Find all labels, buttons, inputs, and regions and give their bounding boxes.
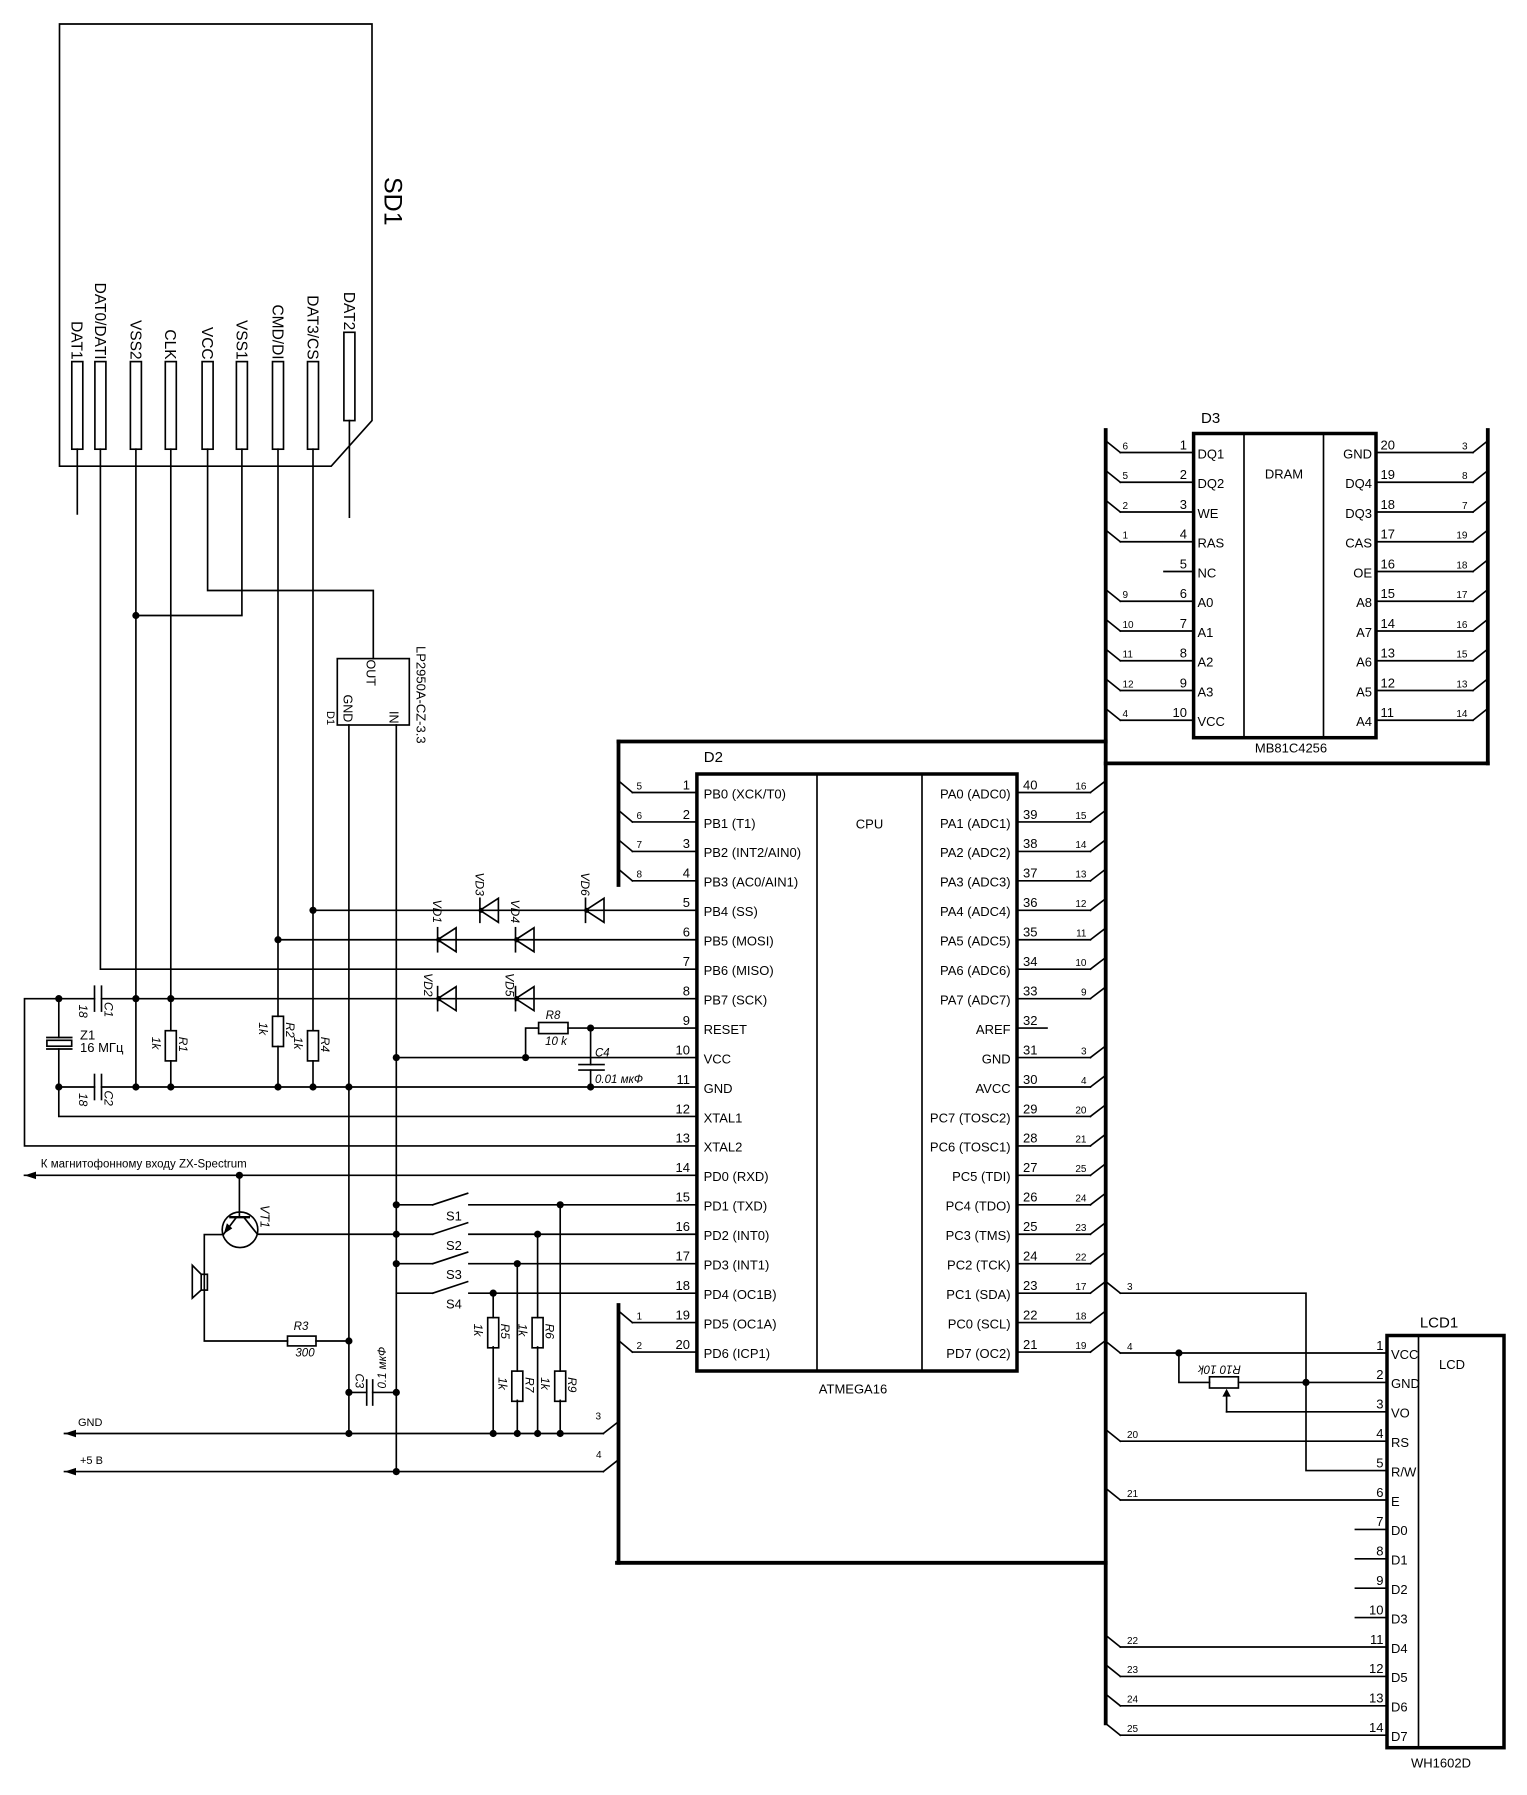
wire D2 pin 33 to bus	[1017, 998, 1090, 1000]
svg-text:R2: R2	[283, 1022, 297, 1038]
wire CMD/DI vertical to R2	[277, 449, 279, 1016]
svg-text:8: 8	[1376, 1544, 1383, 1559]
svg-text:PC4 (TDO): PC4 (TDO)	[946, 1199, 1011, 1214]
svg-text:R10 10k: R10 10k	[1197, 1362, 1241, 1374]
wire LCD D0 stub	[1355, 1528, 1387, 1530]
svg-text:16: 16	[1456, 620, 1468, 631]
svg-text:PA4 (ADC4): PA4 (ADC4)	[940, 904, 1011, 919]
wire PB5 (MOSI) row	[278, 939, 697, 941]
svg-text:18: 18	[1456, 560, 1468, 571]
wire D2 pin 39 to bus	[1017, 821, 1090, 823]
svg-text:17: 17	[1075, 1282, 1087, 1293]
wire D2 pin 34 to bus	[1017, 968, 1090, 970]
wire C4 top lead	[590, 1028, 592, 1065]
junction VT1 base branch	[236, 1172, 243, 1179]
svg-text:VCC: VCC	[198, 327, 215, 360]
svg-text:31: 31	[1023, 1042, 1037, 1057]
svg-text:7: 7	[637, 840, 643, 851]
arrow +5V	[65, 1468, 77, 1476]
bus bottom horizontal	[617, 1561, 1106, 1565]
wire D2 pin 29 to bus	[1017, 1115, 1090, 1117]
svg-text:36: 36	[1023, 895, 1037, 910]
D2 inner divider right	[921, 774, 923, 1371]
svg-text:PB7 (SCK): PB7 (SCK)	[704, 992, 768, 1007]
wire bus to D2 pin 19	[619, 1311, 633, 1323]
wire speaker to R3	[204, 1290, 287, 1341]
svg-text:VD4: VD4	[508, 900, 522, 924]
DRAM D3 box	[1194, 434, 1376, 738]
wire D3 pin 18 to bus	[1376, 511, 1473, 513]
svg-text:PB6 (MISO): PB6 (MISO)	[704, 963, 774, 978]
wire bus to LCD D4 (22)	[1106, 1635, 1121, 1647]
LCD1 inner divider	[1418, 1336, 1420, 1748]
svg-text:GND: GND	[704, 1081, 733, 1096]
resistor R3	[288, 1336, 317, 1346]
SD1 pin DAT1 contact	[72, 362, 83, 450]
wire D2 pin 22 to bus	[1017, 1322, 1090, 1324]
svg-text:10: 10	[1123, 620, 1135, 631]
wire D2 pin 31 to bus	[1017, 1057, 1090, 1059]
svg-text:1: 1	[1123, 531, 1129, 542]
svg-text:PC7 (TOSC2): PC7 (TOSC2)	[930, 1110, 1011, 1125]
svg-text:2: 2	[1180, 467, 1187, 482]
wire PB7 (SCK) row	[102, 998, 697, 1000]
svg-text:PB5 (MOSI): PB5 (MOSI)	[704, 934, 774, 949]
svg-text:11: 11	[677, 1072, 691, 1087]
junction R4 on GND rail	[309, 1083, 316, 1090]
svg-text:2: 2	[683, 807, 690, 822]
svg-text:PC2 (TCK): PC2 (TCK)	[947, 1258, 1011, 1273]
svg-text:37: 37	[1023, 866, 1037, 881]
wire bus to D3 pin 7	[1106, 619, 1121, 631]
wire R8 right lead	[568, 1027, 591, 1029]
svg-text:9: 9	[1123, 590, 1129, 601]
svg-text:D5: D5	[1391, 1670, 1408, 1685]
svg-text:14: 14	[1456, 709, 1468, 720]
svg-text:C2: C2	[102, 1091, 116, 1107]
svg-text:8: 8	[1180, 646, 1187, 661]
svg-text:19: 19	[1075, 1341, 1087, 1352]
wire R1 bottom lead	[170, 1061, 172, 1087]
wire D3 pin 12 to bus	[1376, 690, 1473, 692]
svg-text:PA3 (ADC3): PA3 (ADC3)	[940, 875, 1011, 890]
resistor R9	[555, 1371, 566, 1401]
svg-text:OUT: OUT	[364, 660, 378, 687]
junction C4 on GND rail	[587, 1083, 594, 1090]
svg-text:6: 6	[1123, 441, 1129, 452]
svg-text:DAT3/CS: DAT3/CS	[303, 295, 320, 359]
svg-text:1: 1	[1180, 437, 1187, 452]
svg-text:PB1 (T1): PB1 (T1)	[704, 816, 756, 831]
junction R8 branch on VCC row	[522, 1054, 529, 1061]
svg-text:D3: D3	[1391, 1611, 1408, 1626]
switch S4 right lead to D2	[469, 1292, 697, 1294]
svg-text:PA2 (ADC2): PA2 (ADC2)	[940, 845, 1011, 860]
wire D2 pin 23 to bus	[1017, 1292, 1090, 1294]
svg-text:7: 7	[1462, 501, 1468, 512]
svg-text:16: 16	[1381, 556, 1395, 571]
junction S1 pull-down	[557, 1201, 564, 1208]
junction S2 on +5V vertical	[393, 1231, 400, 1238]
svg-text:IN: IN	[386, 711, 400, 724]
bus left upper segment	[617, 742, 621, 886]
svg-text:19: 19	[676, 1307, 690, 1322]
wire emitter to speaker	[204, 1235, 223, 1275]
wire D2 pin 27 to bus	[1017, 1174, 1090, 1176]
svg-text:5: 5	[683, 895, 690, 910]
wire D3 pin 14 to bus	[1376, 630, 1473, 632]
svg-text:10: 10	[1075, 958, 1087, 969]
resistor R8	[539, 1023, 568, 1034]
svg-text:5: 5	[1180, 556, 1187, 571]
wire VCC row	[396, 1057, 697, 1059]
resistor R7	[512, 1371, 523, 1401]
svg-text:23: 23	[1075, 1223, 1087, 1234]
svg-text:A7: A7	[1356, 625, 1372, 640]
svg-text:D6: D6	[1391, 1700, 1408, 1715]
svg-text:20: 20	[1381, 437, 1395, 452]
junction crystal top	[55, 995, 62, 1002]
svg-text:5: 5	[637, 781, 643, 792]
wire SD VCC to D1 OUT	[208, 449, 374, 658]
svg-text:1: 1	[637, 1311, 643, 1322]
bus D3 bottom horizontal	[1106, 762, 1488, 766]
svg-text:9: 9	[1081, 987, 1087, 998]
wire crystal top lead	[58, 999, 60, 1038]
potentiometer R10	[1210, 1377, 1239, 1388]
D2 inner divider left	[816, 774, 818, 1371]
svg-text:35: 35	[1023, 925, 1037, 940]
diode VD3	[479, 898, 481, 922]
VT1 emitter arrow	[224, 1223, 233, 1234]
junction S3 on +5V vertical	[393, 1260, 400, 1267]
bus main vertical	[1104, 430, 1108, 1723]
svg-text:VT1: VT1	[258, 1205, 272, 1228]
wire VT1 collector to +5V	[257, 1233, 396, 1235]
svg-text:13: 13	[1075, 870, 1087, 881]
junction S2 pull-down	[534, 1231, 541, 1238]
svg-text:12: 12	[1123, 679, 1135, 690]
wire R10 left lead	[1179, 1353, 1210, 1382]
svg-text:DQ4: DQ4	[1345, 476, 1372, 491]
svg-text:12: 12	[1369, 1661, 1383, 1676]
svg-text:DRAM: DRAM	[1265, 467, 1303, 482]
svg-text:15: 15	[1381, 586, 1395, 601]
resistor R4	[308, 1031, 319, 1061]
wire D2 pin 37 to bus	[1017, 880, 1090, 882]
svg-text:RAS: RAS	[1198, 536, 1225, 551]
svg-text:R7: R7	[522, 1377, 536, 1394]
svg-text:A0: A0	[1198, 595, 1214, 610]
svg-text:CLK: CLK	[161, 329, 178, 360]
svg-text:14: 14	[1369, 1720, 1383, 1735]
svg-text:8: 8	[683, 983, 690, 998]
svg-text:6: 6	[637, 811, 643, 822]
junction R/W wire on GND row	[1302, 1379, 1309, 1386]
svg-text:4: 4	[1123, 709, 1129, 720]
svg-text:R8: R8	[546, 1010, 561, 1022]
wire LCD D2 stub	[1355, 1587, 1387, 1589]
svg-text:15: 15	[676, 1190, 690, 1205]
switch S4 arm	[433, 1282, 468, 1294]
svg-text:DQ3: DQ3	[1345, 506, 1372, 521]
arrow to ZX-Spectrum	[25, 1172, 37, 1180]
wire R7 bottom lead	[516, 1400, 518, 1433]
svg-text:2: 2	[1376, 1367, 1383, 1382]
svg-text:0.1 мкФ: 0.1 мкФ	[377, 1347, 389, 1389]
svg-text:22: 22	[1023, 1307, 1037, 1322]
svg-text:5: 5	[1123, 471, 1129, 482]
junction R1 on GND rail	[167, 1083, 174, 1090]
SD1 pin DAT0/DATI contact	[95, 362, 106, 450]
wire DAT3/CS vertical to R4	[312, 449, 314, 1030]
svg-text:3: 3	[683, 836, 690, 851]
svg-text:4: 4	[683, 866, 690, 881]
svg-text:33: 33	[1023, 983, 1037, 998]
svg-text:15: 15	[1456, 650, 1468, 661]
svg-text:C1: C1	[102, 1002, 116, 1017]
svg-text:XTAL2: XTAL2	[704, 1140, 743, 1155]
svg-text:18: 18	[1381, 497, 1395, 512]
svg-text:PD2 (INT0): PD2 (INT0)	[704, 1228, 770, 1243]
svg-text:DAT2: DAT2	[340, 292, 357, 330]
VT1 collector	[244, 1217, 258, 1234]
wire VSS2 vertical	[135, 449, 137, 1087]
svg-text:CMD/DI: CMD/DI	[268, 304, 285, 359]
svg-text:14: 14	[1381, 616, 1395, 631]
svg-text:PD5 (OC1A): PD5 (OC1A)	[704, 1316, 777, 1331]
svg-text:0.01 мкФ: 0.01 мкФ	[595, 1074, 643, 1086]
svg-text:3: 3	[1127, 1282, 1133, 1293]
wire C2 left segment	[59, 1086, 95, 1088]
svg-text:5: 5	[1376, 1455, 1383, 1470]
svg-text:11: 11	[1381, 705, 1395, 720]
junction R8/C4 on RESET row	[587, 1025, 594, 1032]
svg-text:VD3: VD3	[472, 872, 486, 896]
wire D2 pin 30 to bus	[1017, 1086, 1090, 1088]
svg-text:11: 11	[1076, 929, 1087, 940]
switch S3 arm	[433, 1252, 468, 1264]
wire bus to D3 pin 4	[1106, 530, 1121, 542]
junction R2 on GND rail	[274, 1083, 281, 1090]
bus entry +5V (4)	[603, 1460, 618, 1472]
svg-text:VSS1: VSS1	[232, 320, 249, 360]
wire C4 bottom lead	[590, 1070, 592, 1087]
svg-text:9: 9	[683, 1013, 690, 1028]
svg-text:R6: R6	[543, 1324, 557, 1340]
svg-text:PB0 (XCK/T0): PB0 (XCK/T0)	[704, 786, 786, 801]
svg-text:AREF: AREF	[976, 1022, 1011, 1037]
svg-text:D1: D1	[1391, 1553, 1408, 1568]
svg-text:PA5 (ADC5): PA5 (ADC5)	[940, 934, 1011, 949]
diode VD6	[585, 898, 587, 922]
resistor R6	[532, 1318, 543, 1348]
svg-text:21: 21	[1075, 1135, 1087, 1146]
svg-text:3: 3	[1081, 1046, 1087, 1057]
svg-text:22: 22	[1127, 1636, 1139, 1647]
wire bus to LCD D7 (25)	[1106, 1724, 1121, 1736]
svg-text:18: 18	[76, 1093, 90, 1107]
SD1 pin VCC contact	[202, 362, 213, 450]
wire D2 pin 24 to bus	[1017, 1263, 1090, 1265]
svg-text:VD2: VD2	[421, 973, 435, 997]
wire D2 pin 26 to bus	[1017, 1204, 1090, 1206]
svg-text:30: 30	[1023, 1072, 1037, 1087]
svg-text:18: 18	[676, 1278, 690, 1293]
svg-text:R4: R4	[318, 1037, 332, 1053]
svg-text:1: 1	[1376, 1338, 1383, 1353]
crystal Z1	[47, 1037, 72, 1039]
wire D2 pin 38 to bus	[1017, 850, 1090, 852]
wire R9 bottom lead	[559, 1400, 561, 1433]
wire bus to D3 pin 9	[1106, 679, 1121, 691]
speaker BA1	[201, 1274, 207, 1290]
svg-text:DQ2: DQ2	[1198, 476, 1225, 491]
wire crystal bottom to XTAL1 row	[59, 1049, 697, 1116]
resistor R5	[488, 1318, 499, 1348]
svg-text:ATMEGA16: ATMEGA16	[819, 1382, 887, 1397]
wire DAT2 stub	[348, 421, 350, 518]
svg-text:PB4 (SS): PB4 (SS)	[704, 904, 758, 919]
wire S2 to R6	[537, 1234, 539, 1317]
capacitor C1	[94, 986, 96, 1011]
wire XTAL2 net (C1 left plate to pin 13)	[25, 999, 697, 1146]
svg-text:D2: D2	[1391, 1582, 1408, 1597]
switch S1 left lead	[396, 1204, 432, 1206]
svg-text:3: 3	[1376, 1397, 1383, 1412]
wire S3 to R7	[516, 1264, 518, 1371]
svg-text:VSS2: VSS2	[126, 320, 143, 360]
svg-text:11: 11	[1123, 650, 1134, 661]
svg-text:10: 10	[1173, 705, 1187, 720]
junction S1 on +5V vertical	[393, 1201, 400, 1208]
svg-text:25: 25	[1023, 1219, 1037, 1234]
svg-text:D1: D1	[324, 711, 336, 725]
svg-text:20: 20	[1127, 1430, 1139, 1441]
svg-text:2: 2	[637, 1341, 643, 1352]
svg-text:+5 В: +5 В	[80, 1455, 103, 1467]
svg-text:4: 4	[1127, 1342, 1133, 1353]
svg-text:D0: D0	[1391, 1523, 1408, 1538]
junction S4 pull-down	[490, 1290, 497, 1297]
wire NC stub	[1164, 571, 1194, 573]
wire R5 bottom lead	[492, 1347, 494, 1434]
switch S1 arm	[433, 1193, 468, 1205]
svg-text:S2: S2	[446, 1238, 462, 1253]
svg-text:22: 22	[1075, 1253, 1087, 1264]
diode VD4	[515, 928, 517, 952]
svg-text:18: 18	[76, 1005, 90, 1019]
svg-text:CPU: CPU	[856, 817, 883, 832]
svg-text:A8: A8	[1356, 595, 1372, 610]
wire GND rail	[102, 1086, 697, 1088]
switch S2 left lead	[396, 1233, 432, 1235]
svg-text:7: 7	[1376, 1514, 1383, 1529]
svg-text:GND: GND	[982, 1051, 1011, 1066]
R10 wiper arrow	[1226, 1396, 1228, 1412]
svg-text:A2: A2	[1198, 655, 1214, 670]
wire D3 pin 13 to bus	[1376, 660, 1473, 662]
bus D3 right vertical	[1486, 430, 1490, 763]
bus entry GND (3)	[603, 1422, 618, 1434]
svg-text:40: 40	[1023, 777, 1037, 792]
wire GND row	[65, 1433, 604, 1435]
svg-text:PA7 (ADC7): PA7 (ADC7)	[940, 992, 1011, 1007]
wire R6 bottom lead	[537, 1347, 539, 1434]
junction R10 top	[1175, 1349, 1182, 1356]
svg-text:PD0 (RXD): PD0 (RXD)	[704, 1169, 769, 1184]
junction S3 pull-down	[514, 1260, 521, 1267]
svg-text:12: 12	[1075, 899, 1087, 910]
VT1 base bar	[230, 1216, 248, 1218]
junction VSS2/VSS1 tie	[132, 612, 139, 619]
wire C3 right lead	[373, 1391, 397, 1393]
wire D3 pin 20 to bus	[1376, 452, 1473, 454]
svg-text:18: 18	[1075, 1311, 1087, 1322]
svg-text:PC0 (SCL): PC0 (SCL)	[948, 1316, 1011, 1331]
svg-text:12: 12	[1381, 675, 1395, 690]
D3 inner divider right	[1323, 434, 1325, 738]
svg-text:14: 14	[1075, 840, 1087, 851]
wire D2 pin 21 to bus	[1017, 1351, 1090, 1353]
junction on GND row	[534, 1430, 541, 1437]
wire R10 right lead to LCD GND	[1238, 1381, 1387, 1383]
svg-text:23: 23	[1127, 1665, 1139, 1676]
voltage regulator U D1 LP2950 box	[337, 659, 409, 725]
junction DAT3/CS on PB4 row	[309, 907, 316, 914]
wire D2 pin 36 to bus	[1017, 909, 1090, 911]
wire bus to LCD E (21)	[1106, 1488, 1121, 1500]
junction on GND row	[557, 1430, 564, 1437]
wire bus to D3 pin 1	[1106, 441, 1121, 453]
svg-text:1k: 1k	[495, 1377, 509, 1391]
junction VSS2 on GND rail	[132, 1083, 139, 1090]
svg-text:VD5: VD5	[503, 973, 517, 997]
svg-text:PD7 (OC2): PD7 (OC2)	[946, 1346, 1010, 1361]
svg-text:S1: S1	[446, 1208, 462, 1223]
svg-text:28: 28	[1023, 1131, 1037, 1146]
svg-text:6: 6	[683, 925, 690, 940]
svg-text:1k: 1k	[149, 1037, 163, 1051]
svg-text:9: 9	[1180, 675, 1187, 690]
wire D3 pin 19 to bus	[1376, 481, 1473, 483]
svg-text:34: 34	[1023, 954, 1037, 969]
transistor VT1 circle	[222, 1212, 258, 1248]
svg-text:13: 13	[1381, 646, 1395, 661]
svg-text:SD1: SD1	[379, 177, 407, 226]
wire bus to D3 pin 8	[1106, 649, 1121, 661]
svg-text:19: 19	[1456, 531, 1468, 542]
capacitor C4	[579, 1064, 604, 1066]
svg-text:S3: S3	[446, 1267, 462, 1282]
svg-text:300: 300	[295, 1348, 315, 1360]
svg-text:К магнитофонному входу ZX-Spec: К магнитофонному входу ZX-Spectrum	[41, 1159, 247, 1171]
junction C3 right	[393, 1389, 400, 1396]
svg-text:A3: A3	[1198, 684, 1214, 699]
svg-text:RS: RS	[1391, 1435, 1409, 1450]
svg-text:DAT1: DAT1	[68, 321, 85, 359]
SD card connector SD1 outline	[60, 24, 373, 466]
svg-text:2: 2	[1123, 501, 1129, 512]
resistor R2	[273, 1016, 284, 1046]
svg-text:GND: GND	[341, 695, 355, 723]
svg-text:29: 29	[1023, 1101, 1037, 1116]
svg-text:DAT0/DATI: DAT0/DATI	[91, 283, 108, 360]
junction CLK/R1 on SCK row	[167, 995, 174, 1002]
CPU D2 box	[697, 774, 1017, 1371]
junction C3 left	[345, 1389, 352, 1396]
svg-text:R/W: R/W	[1391, 1464, 1417, 1479]
